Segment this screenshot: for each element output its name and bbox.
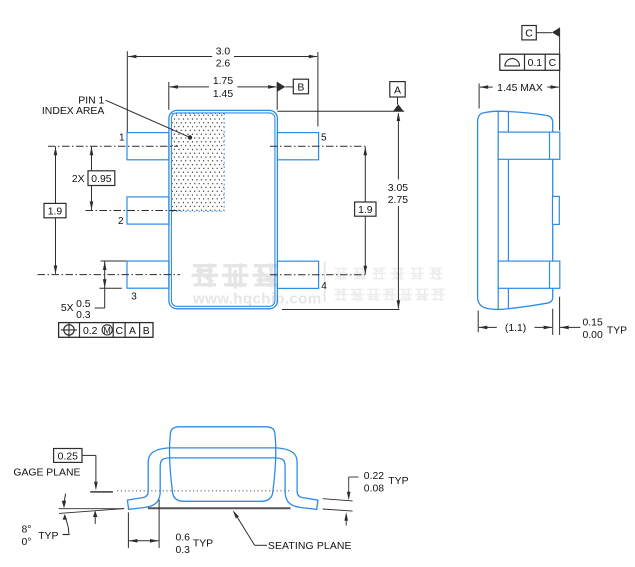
svg-text:1.9: 1.9 (48, 207, 63, 218)
svg-text:0.95: 0.95 (91, 174, 111, 185)
svg-text:0.2: 0.2 (83, 326, 98, 337)
svg-text:2: 2 (118, 216, 124, 227)
svg-text:0.5: 0.5 (76, 299, 91, 310)
svg-text:B: B (143, 326, 150, 337)
svg-text:TYP: TYP (607, 325, 627, 336)
svg-text:0.00: 0.00 (583, 330, 603, 341)
svg-text:3: 3 (131, 292, 137, 303)
svg-text:2.75: 2.75 (388, 195, 408, 206)
svg-text:0.22: 0.22 (364, 471, 384, 482)
svg-text:GAGE PLANE: GAGE PLANE (13, 467, 80, 478)
svg-text:0.08: 0.08 (364, 483, 384, 494)
svg-text:3.0: 3.0 (216, 47, 231, 58)
svg-text:A: A (394, 84, 401, 96)
svg-text:2.6: 2.6 (216, 59, 231, 70)
svg-text:TYP: TYP (388, 476, 408, 487)
svg-text:4: 4 (321, 281, 327, 292)
svg-text:1.45: 1.45 (213, 89, 233, 100)
svg-text:1.75: 1.75 (213, 76, 233, 87)
svg-text:C: C (116, 326, 124, 337)
svg-text:B: B (297, 82, 304, 94)
svg-text:(1.1): (1.1) (505, 323, 526, 334)
svg-text:www.hqchip.com: www.hqchip.com (192, 291, 322, 308)
svg-text:SEATING PLANE: SEATING PLANE (268, 541, 352, 552)
svg-text:PIN 1: PIN 1 (78, 95, 104, 106)
svg-text:A: A (129, 326, 136, 337)
svg-text:3.05: 3.05 (388, 183, 408, 194)
svg-text:0.1: 0.1 (528, 58, 543, 69)
svg-text:2X: 2X (72, 174, 85, 185)
svg-text:0.6: 0.6 (175, 533, 190, 544)
svg-text:0°: 0° (22, 537, 32, 548)
svg-text:5: 5 (321, 133, 327, 144)
svg-text:0.3: 0.3 (175, 545, 190, 556)
svg-text:0.15: 0.15 (583, 318, 603, 329)
svg-text:1: 1 (119, 133, 125, 144)
svg-text:0.25: 0.25 (58, 451, 78, 462)
svg-text:TYP: TYP (193, 539, 213, 550)
svg-text:INDEX AREA: INDEX AREA (42, 106, 104, 117)
svg-text:TYP: TYP (38, 531, 58, 542)
svg-text:1.9: 1.9 (358, 205, 373, 216)
svg-text:C: C (525, 27, 533, 39)
svg-text:C: C (549, 58, 557, 69)
svg-text:M: M (104, 325, 111, 335)
svg-text:0.3: 0.3 (76, 310, 91, 321)
svg-text:1.45 MAX: 1.45 MAX (497, 83, 543, 94)
svg-text:5X: 5X (61, 303, 74, 314)
svg-text:8°: 8° (22, 524, 32, 535)
